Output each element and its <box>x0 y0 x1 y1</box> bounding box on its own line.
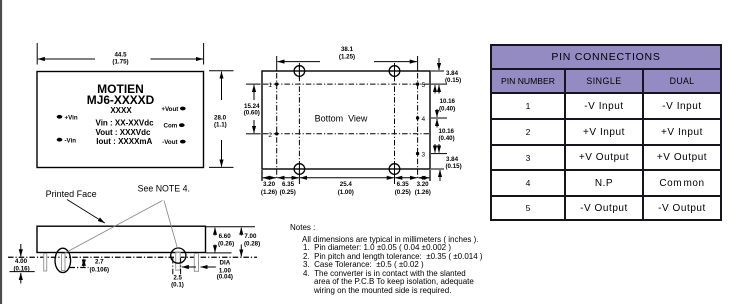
hole bottom-left <box>294 164 305 175</box>
printed face leader arrow <box>67 200 105 224</box>
hole bottom-right <box>389 164 400 175</box>
svg-text:5: 5 <box>422 82 426 89</box>
svg-text:4.00: 4.00 <box>15 258 28 265</box>
dimension 3.20 right <box>418 177 429 179</box>
svg-text:(1.25): (1.25) <box>339 54 355 61</box>
leader to circle <box>164 201 178 249</box>
page left border <box>0 0 2 304</box>
svg-text:3.20: 3.20 <box>263 181 276 188</box>
svg-text:Printed Face: Printed Face <box>46 189 97 199</box>
pin 1 <box>275 82 278 85</box>
dimension 28.0 line <box>221 72 223 100</box>
dimension 2.5 extension lines <box>172 258 174 276</box>
svg-text:2: 2 <box>268 132 272 139</box>
svg-text:See NOTE 4.: See NOTE 4. <box>138 184 190 194</box>
pin right <box>194 254 198 272</box>
dimension 2.5 arrow <box>182 266 196 268</box>
dimension 3.84 top <box>438 58 440 70</box>
dimension 44.5 line <box>38 58 95 60</box>
dimension 2.7 <box>70 267 89 269</box>
svg-text:38.1: 38.1 <box>341 46 354 53</box>
right side extension lines <box>431 70 444 72</box>
note-4 ellipse left <box>55 248 71 272</box>
case bottom reference extension <box>206 252 232 254</box>
svg-text:Vout : XXXVdc: Vout : XXXVdc <box>96 128 152 137</box>
svg-text:(0.40): (0.40) <box>439 106 455 113</box>
svg-text:Bottom View: Bottom View <box>315 113 368 123</box>
svg-text:Com: Com <box>164 123 178 130</box>
dimension 6.35 left <box>277 177 298 179</box>
svg-text:3: 3 <box>422 152 426 159</box>
pcb plane centerline <box>8 256 257 258</box>
pin 5 <box>416 82 419 85</box>
svg-text:(0.40): (0.40) <box>439 135 455 142</box>
svg-text:(0.106): (0.106) <box>90 266 110 273</box>
dimension 38.1 line <box>278 61 321 63</box>
pin in ellipse <box>62 254 66 271</box>
dimension 10.16 lower <box>436 119 438 128</box>
pin left <box>44 254 47 272</box>
pin 4 <box>416 116 419 119</box>
svg-text:(1.75): (1.75) <box>112 59 128 66</box>
pin marker -Vin <box>57 138 63 142</box>
dimension 38.1 extension lines <box>276 56 278 71</box>
svg-text:(0.26): (0.26) <box>218 240 234 247</box>
centerline vertical pin column left <box>276 73 278 180</box>
svg-text:Vin : XX-XXVdc: Vin : XX-XXVdc <box>96 118 155 127</box>
svg-text:DIA: DIA <box>220 260 231 267</box>
dimension 7.00 <box>240 228 242 236</box>
svg-text:4: 4 <box>422 116 426 123</box>
svg-text:(0.60): (0.60) <box>244 109 260 116</box>
svg-text:(0.1): (0.1) <box>171 282 184 289</box>
notes <box>290 224 510 295</box>
svg-text:10.16: 10.16 <box>440 98 456 105</box>
svg-text:XXXX: XXXX <box>110 106 132 115</box>
svg-text:Iout : XXXXmA: Iout : XXXXmA <box>96 137 152 146</box>
centerline horizontal pin row 2 <box>263 133 429 135</box>
svg-text:(0.04): (0.04) <box>217 274 233 281</box>
svg-text:2.7: 2.7 <box>95 259 104 266</box>
dimension 4.00 <box>20 244 22 256</box>
centerline horizontal pin row 1-5 <box>263 83 429 85</box>
svg-text:(1.1): (1.1) <box>214 122 227 129</box>
svg-text:6.60: 6.60 <box>219 233 232 240</box>
svg-text:(0.28): (0.28) <box>244 240 260 247</box>
svg-text:2.5: 2.5 <box>173 274 182 281</box>
svg-text:(1.26): (1.26) <box>261 189 277 196</box>
centerline vertical pin column right <box>417 73 419 180</box>
svg-text:-Vin: -Vin <box>65 137 77 144</box>
dimension DIA 1.00 arrow <box>201 266 216 268</box>
dimension 44.5 extension lines <box>36 43 38 65</box>
dimension 15.24 extension lines <box>246 83 261 85</box>
svg-text:28.0: 28.0 <box>214 115 227 122</box>
svg-text:25.4: 25.4 <box>340 181 353 188</box>
bottom view outline <box>262 71 430 169</box>
svg-text:(1.00): (1.00) <box>338 189 354 196</box>
hole top-right <box>389 66 400 77</box>
PIN CONNECTIONS table <box>490 44 722 221</box>
svg-text:+Vout: +Vout <box>161 106 178 113</box>
svg-text:44.5: 44.5 <box>114 51 127 58</box>
svg-text:-Vout: -Vout <box>162 139 177 146</box>
bottom extension lines <box>261 170 263 181</box>
pin marker +Vin <box>57 115 63 119</box>
dimension 10.16 upper <box>438 85 440 93</box>
top reference line extension <box>206 226 256 228</box>
svg-text:1: 1 <box>268 82 272 89</box>
svg-text:3.20: 3.20 <box>417 181 430 188</box>
dimension 3.20 left <box>263 177 276 179</box>
pin in circle <box>176 253 181 271</box>
dimension 15.24 line <box>253 85 255 100</box>
svg-text:10.16: 10.16 <box>439 128 455 135</box>
dimension 6.60 <box>214 228 216 236</box>
svg-text:(1.26): (1.26) <box>415 189 431 196</box>
svg-text:6.35: 6.35 <box>282 181 295 188</box>
svg-text:(0.25): (0.25) <box>280 189 296 196</box>
leader to ellipse <box>64 201 163 254</box>
dimension 25.4 <box>300 177 394 179</box>
svg-text:3.84: 3.84 <box>446 156 459 163</box>
dimension 6.35 right <box>395 177 417 179</box>
module case outline <box>37 72 204 168</box>
svg-text:6.35: 6.35 <box>397 181 410 188</box>
centerline hole column left <box>298 65 300 161</box>
svg-text:7.00: 7.00 <box>244 233 257 240</box>
svg-text:+Vin: +Vin <box>65 115 78 122</box>
hole top-left <box>294 66 305 77</box>
pin 3 <box>416 152 419 155</box>
centerline hole column right <box>394 65 396 161</box>
svg-text:(0.25): (0.25) <box>395 189 411 196</box>
svg-text:(0.15): (0.15) <box>446 163 462 170</box>
side view case outline <box>37 226 206 252</box>
dimension 28.0 extension lines <box>209 70 234 72</box>
pin 2 <box>275 132 278 135</box>
svg-text:(0.15): (0.15) <box>445 77 461 84</box>
svg-text:3.84: 3.84 <box>446 70 459 77</box>
note-4 circle right <box>171 248 186 263</box>
